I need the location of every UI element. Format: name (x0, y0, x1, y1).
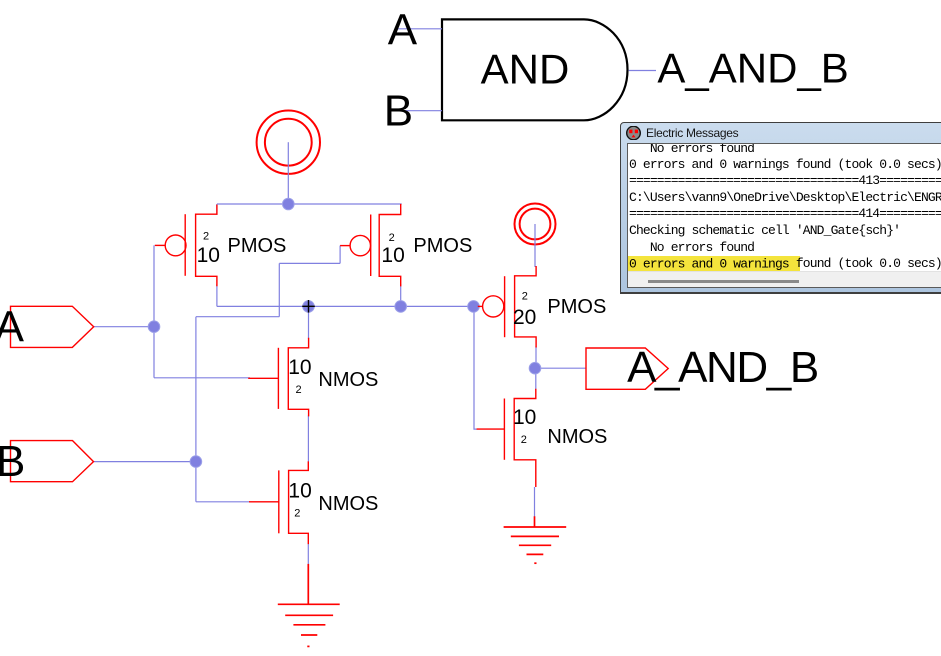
svg-text:2: 2 (296, 384, 302, 396)
wire left PMOS drain bottom to output row (216, 284, 218, 306)
PMOS M5 (inverter) (478, 266, 536, 348)
junction A (148, 321, 160, 333)
export B (0, 437, 94, 486)
ground GND2 (below inverter) (504, 516, 567, 563)
wire input B horizontal (94, 461, 196, 463)
svg-text:A: A (388, 5, 418, 54)
svg-text:10: 10 (288, 480, 311, 503)
svg-text:10: 10 (197, 244, 220, 267)
wire B to right PMOS gate stub row (279, 262, 340, 264)
wire B riser (278, 263, 280, 316)
svg-text:NMOS: NMOS (318, 369, 378, 391)
node + marker (selected NAND output node) (302, 300, 315, 313)
AND gate symbol (top) (442, 19, 628, 120)
svg-text:2: 2 (203, 231, 209, 243)
wire right PMOS gate drop (339, 246, 341, 264)
svg-text:PMOS: PMOS (547, 296, 606, 318)
wire left PMOS drain top (216, 204, 218, 215)
wire inverter PMOS drain to out (535, 346, 537, 368)
svg-text:B: B (384, 87, 413, 136)
junction B (190, 456, 202, 468)
wire top rail (217, 203, 402, 205)
svg-text:10: 10 (288, 356, 311, 379)
svg-text:10: 10 (513, 406, 536, 429)
junction NAND output node (303, 301, 315, 313)
wire right PMOS drain bottom to output row (400, 284, 402, 306)
svg-text:PMOS: PMOS (413, 235, 472, 257)
wire inverter gate vertical (474, 306, 477, 429)
wire inverter NMOS source to ground (534, 487, 536, 517)
wire input A horizontal (94, 326, 154, 328)
ground GND1 (below NMOS stack) (278, 564, 340, 647)
wire bottom NMOS to ground (307, 544, 309, 565)
svg-text:NMOS: NMOS (318, 493, 378, 515)
wire between stacked NMOS (307, 416, 309, 463)
wire A to top NMOS gate (154, 377, 250, 379)
Electric app icon (626, 126, 641, 140)
svg-text:A: A (0, 303, 25, 352)
svg-text:A_AND_B: A_AND_B (657, 45, 848, 92)
wire B vertical (195, 317, 197, 502)
NMOS M3 (top of stack) (248, 338, 308, 417)
Electric Messages window (620, 122, 941, 294)
svg-text:2: 2 (389, 232, 395, 244)
svg-text:NMOS: NMOS (547, 426, 607, 448)
wire B to AND gate (397, 110, 442, 112)
power symbol P2 (right, VDD of inverter) (515, 204, 556, 245)
wire input A vertical (153, 245, 155, 377)
svg-text:PMOS: PMOS (228, 235, 287, 257)
junction output row right PMOS drain (395, 301, 407, 313)
junction inverter output (529, 362, 541, 374)
power symbol P1 (left, VDD) (257, 111, 320, 174)
wire AND gate output (629, 70, 656, 72)
svg-text:2: 2 (294, 507, 300, 519)
junction top rail (283, 198, 295, 210)
export A (0, 303, 94, 352)
wire inverter NMOS drain to out (535, 368, 537, 390)
wire inverter output (535, 367, 586, 369)
svg-text:10: 10 (381, 244, 404, 267)
PMOS M2 (right of NAND) (340, 204, 401, 287)
wire NAND output to NMOS stack (308, 306, 310, 339)
NMOS M6 (inverter) (477, 389, 536, 487)
svg-text:B: B (0, 437, 25, 486)
wire power stem to top rail (287, 142, 289, 204)
wire A to AND gate (396, 28, 442, 30)
svg-text:20: 20 (513, 306, 536, 329)
NMOS M4 (bottom of stack) (249, 461, 308, 544)
svg-text:2: 2 (522, 291, 528, 303)
wire B to bottom NMOS gate (196, 501, 250, 503)
svg-text:A_AND_B: A_AND_B (627, 343, 818, 392)
junction NAND out to inverter (468, 301, 480, 313)
wire B to right PMOS gate (horizontal) (196, 316, 279, 318)
svg-text:AND: AND (481, 46, 570, 93)
wire inverter power stem (534, 224, 536, 267)
wire output row of NAND (217, 305, 473, 307)
PMOS M1 (left of NAND) (155, 205, 217, 287)
export A_AND_B (586, 343, 818, 392)
svg-text:2: 2 (521, 434, 527, 446)
